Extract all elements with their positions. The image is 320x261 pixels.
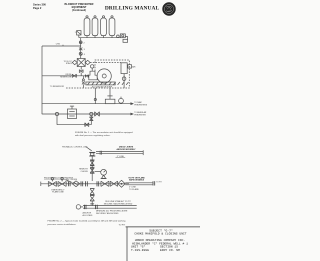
svg-text:TO PIT: TO PIT xyxy=(119,225,126,227)
svg-text:RUN LINE STRAIGHT TO PIT: RUN LINE STRAIGHT TO PIT xyxy=(105,200,131,203)
svg-text:RESERVOIR: RESERVOIR xyxy=(60,77,72,79)
svg-text:FIGURE No. 2 — Typical choke m: FIGURE No. 2 — Typical choke manifold as… xyxy=(48,220,127,223)
svg-text:ADJ. CHOKE: ADJ. CHOKE xyxy=(66,178,78,181)
svg-text:Page 2: Page 2 xyxy=(33,6,42,10)
svg-text:FIGURE No. 1 — The accumulator: FIGURE No. 1 — The accumulator unit shou… xyxy=(75,131,133,134)
svg-text:pressure service installations: pressure service installations. xyxy=(48,223,77,226)
svg-text:ALL LINES: ALL LINES xyxy=(83,214,93,217)
svg-text:EDDY CO. NM: EDDY CO. NM xyxy=(160,249,180,252)
svg-text:ANCHOR SECURELY: ANCHOR SECURELY xyxy=(117,148,137,151)
svg-text:T-19S-R28E: T-19S-R28E xyxy=(131,249,149,252)
svg-text:FLARE LINE: FLARE LINE xyxy=(52,191,64,194)
svg-text:DRILLING MANUAL: DRILLING MANUAL xyxy=(105,5,160,11)
svg-text:STACK: STACK xyxy=(66,62,73,65)
svg-text:CHG: CHG xyxy=(56,44,61,46)
svg-text:SAFE DISTANCE: SAFE DISTANCE xyxy=(129,179,145,182)
svg-text:SECURELY ANCHORED: SECURELY ANCHORED xyxy=(96,212,119,215)
svg-text:TO FLARE: TO FLARE xyxy=(129,188,139,191)
svg-text:CHOKE: CHOKE xyxy=(81,171,89,173)
svg-text:ACCUMULATOR PUMP: ACCUMULATOR PUMP xyxy=(92,86,113,89)
svg-text:PREVENTERS: PREVENTERS xyxy=(134,104,148,106)
svg-text:PREVENTER: PREVENTER xyxy=(134,115,146,117)
svg-text:(Continued): (Continued) xyxy=(72,9,86,12)
svg-text:CHOKE MANIFOLD & CLOSING UNIT: CHOKE MANIFOLD & CLOSING UNIT xyxy=(134,233,186,236)
svg-text:TO PIT: TO PIT xyxy=(156,182,161,184)
svg-text:with dual pressure regulating: with dual pressure regulating valves. xyxy=(75,134,111,137)
svg-text:SECURELY ANCHORED AT END: SECURELY ANCHORED AT END xyxy=(104,202,133,205)
svg-text:TO RESERVOIR: TO RESERVOIR xyxy=(50,86,65,88)
svg-text:HYDRAULIC CONTROL LINE: HYDRAULIC CONTROL LINE xyxy=(62,145,88,148)
